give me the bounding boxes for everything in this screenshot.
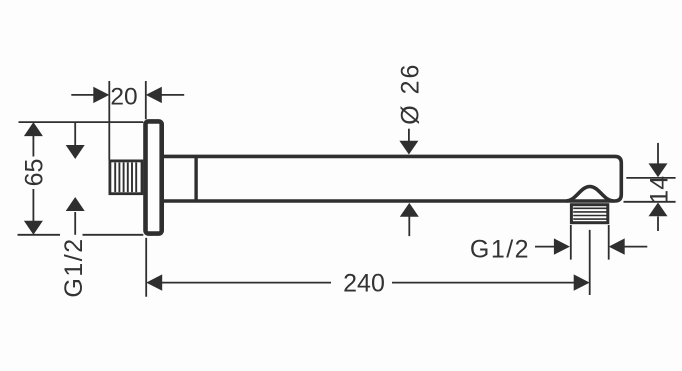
- dimension 14: extension lines: [624, 178, 676, 202]
- right G1/2 callout: right arrow: [609, 238, 648, 254]
- dimension 240: dimension line with arrows: [146, 274, 590, 290]
- dimension diameter 26: lower arrow: [400, 203, 419, 236]
- dimension diameter 26: upper arrow: [399, 129, 418, 155]
- right G1/2 thread block: [571, 205, 607, 223]
- svg-text:G1/2: G1/2: [470, 235, 530, 263]
- left G1/2 thread nipple: [110, 161, 142, 194]
- svg-text:240: 240: [343, 270, 385, 298]
- right G1/2 callout: leader and left arrow: [535, 238, 570, 254]
- dimension 20: left arrow and stem: [71, 87, 109, 103]
- svg-text:Ø 26: Ø 26: [397, 63, 425, 125]
- svg-text:65: 65: [21, 159, 49, 187]
- svg-text:G1/2: G1/2: [60, 237, 88, 297]
- svg-text:14: 14: [645, 176, 673, 204]
- dimension 65: extension lines: [18, 122, 144, 235]
- shower arm tube outline: [164, 156, 622, 201]
- arm joint line near flange: [194, 155, 197, 202]
- dimension 20: right arrow and stem: [146, 87, 184, 103]
- outlet dome at right end: [566, 187, 613, 202]
- dimension 20: extension lines: [109, 81, 146, 160]
- svg-text:20: 20: [110, 84, 137, 111]
- left G1/2 callout: upper arrow: [66, 122, 85, 159]
- dimension 14: lower arrow: [649, 203, 668, 232]
- wall flange (escutcheon): [146, 121, 162, 233]
- dimension 14: upper arrow: [649, 143, 668, 177]
- right G1/2 callout: extension lines under thread: [571, 225, 609, 260]
- dimension 65: dimension line with arrows: [24, 122, 43, 235]
- left G1/2 callout: lower arrow: [66, 197, 85, 235]
- dimension 240: extension lines: [146, 230, 590, 297]
